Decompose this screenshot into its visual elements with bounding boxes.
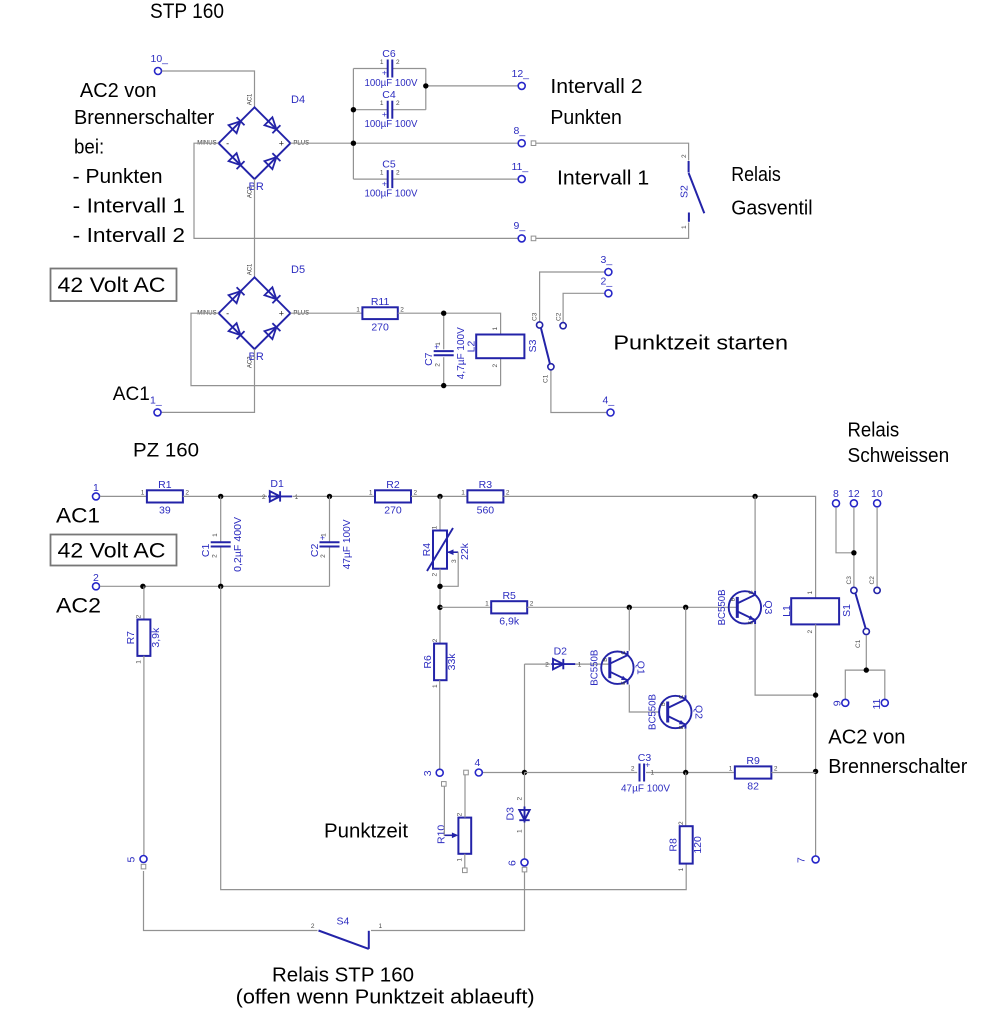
svg-text:- Intervall 2: - Intervall 2	[73, 225, 185, 247]
svg-text:+: +	[645, 760, 650, 770]
svg-text:R5: R5	[502, 590, 516, 602]
terminal 2	[93, 583, 100, 590]
svg-text:C2: C2	[309, 544, 321, 558]
svg-text:2: 2	[774, 766, 778, 773]
wire term4 to D3 node	[483, 772, 525, 774]
wire R5 left	[440, 606, 491, 608]
wire R10 wiper up	[443, 786, 445, 835]
svg-text:1: 1	[212, 533, 219, 537]
junction Q1 collector	[627, 605, 632, 610]
wire L2.2	[500, 358, 502, 385]
svg-text:Q2: Q2	[692, 705, 704, 719]
svg-text:100µF 100V: 100µF 100V	[365, 188, 418, 200]
svg-text:L1: L1	[781, 605, 793, 617]
svg-text:C1: C1	[543, 374, 550, 383]
junction PLUS bus	[351, 141, 356, 146]
wire branch to 11	[866, 670, 885, 699]
wire D5.PLUS to R11	[290, 312, 362, 314]
terminal 12_	[518, 82, 525, 89]
svg-text:1: 1	[456, 858, 463, 862]
resistor R11	[356, 296, 404, 334]
svg-text:1: 1	[485, 601, 489, 608]
svg-text:1: 1	[492, 327, 499, 331]
wire D4.AC2 to D5.AC1	[254, 179, 256, 277]
wire 5 to S4.2	[144, 871, 318, 931]
svg-text:Schweissen: Schweissen	[848, 445, 950, 467]
resistor R6	[422, 638, 458, 688]
label 11	[871, 698, 883, 709]
diode D3	[505, 797, 530, 834]
title PZ 160	[133, 441, 199, 462]
pad below 3	[442, 782, 447, 787]
pad R10 pin1	[463, 868, 468, 873]
svg-text:2: 2	[432, 638, 439, 642]
svg-text:C2: C2	[869, 576, 876, 585]
svg-text:BC550B: BC550B	[716, 589, 728, 625]
svg-text:1: 1	[729, 766, 733, 773]
label 6	[507, 860, 519, 866]
svg-text:C7: C7	[423, 352, 435, 366]
svg-text:8: 8	[833, 488, 839, 500]
svg-text:Q3: Q3	[762, 600, 774, 614]
terminal 12	[850, 500, 857, 507]
terminal 1_	[154, 409, 161, 416]
terminal 1	[93, 493, 100, 500]
label Schweissen	[848, 445, 950, 467]
wire C2 top stub	[329, 496, 331, 542]
svg-text:Intervall 1: Intervall 1	[557, 168, 649, 190]
svg-text:120: 120	[692, 836, 704, 854]
svg-text:8_: 8_	[514, 125, 526, 137]
svg-text:Brennerschalter: Brennerschalter	[828, 756, 967, 778]
wire right cap bus	[425, 69, 427, 110]
terminal 9_	[518, 235, 525, 242]
svg-text:Relais STP 160: Relais STP 160	[272, 965, 414, 987]
svg-text:2: 2	[434, 363, 441, 367]
svg-text:1: 1	[380, 59, 384, 66]
svg-text:BC550B: BC550B	[588, 650, 600, 686]
svg-text:Gasventil: Gasventil	[731, 198, 812, 220]
svg-text:Q1: Q1	[634, 661, 646, 675]
wire C6 left	[353, 68, 387, 70]
svg-text:E: E	[679, 725, 685, 729]
svg-text:C: C	[748, 590, 754, 594]
svg-text:E: E	[621, 681, 627, 685]
svg-text:42 Volt AC: 42 Volt AC	[58, 274, 166, 297]
label 12	[848, 488, 860, 500]
label AC2 bottom	[56, 595, 101, 618]
svg-text:1: 1	[141, 490, 145, 497]
junction 8/12	[851, 550, 856, 555]
junction R4 top	[437, 494, 442, 499]
switch S1 blade	[846, 576, 876, 648]
bridge rectifier D5	[197, 263, 309, 368]
wire AC2 net	[100, 585, 330, 587]
label 1	[93, 482, 99, 494]
trimmer R10	[436, 812, 471, 861]
svg-text:3: 3	[422, 770, 434, 776]
svg-text:1: 1	[295, 494, 299, 501]
relay coil L1	[781, 591, 853, 634]
wire L1.2 down to terminal 7	[815, 624, 817, 855]
terminal 4	[475, 769, 482, 776]
pad below 5	[141, 864, 146, 869]
terminal 3	[436, 769, 443, 776]
label 2_	[601, 276, 613, 288]
svg-text:C5: C5	[382, 159, 396, 171]
svg-text:3,9k: 3,9k	[150, 627, 162, 648]
svg-text:0,2µF 400V: 0,2µF 400V	[232, 517, 244, 572]
svg-text:R8: R8	[668, 838, 680, 852]
svg-text:2: 2	[678, 821, 685, 825]
svg-text:2: 2	[807, 630, 814, 634]
svg-text:6,9k: 6,9k	[499, 616, 520, 628]
label 2	[93, 572, 99, 584]
svg-text:12: 12	[848, 488, 860, 500]
svg-text:42 Volt AC: 42 Volt AC	[58, 540, 166, 563]
wire R7 top stub	[143, 586, 145, 619]
wire D5.MINUS to bottom bus	[191, 313, 501, 385]
svg-text:2: 2	[456, 812, 463, 816]
capacitor C4	[365, 89, 418, 130]
wire Q2 emitter	[685, 729, 687, 773]
junction R7 top	[140, 584, 145, 589]
label 12_	[512, 68, 530, 80]
svg-text:1: 1	[136, 660, 143, 664]
contact S3.C3	[537, 322, 543, 328]
diode D2	[545, 646, 582, 670]
contact S3.C2	[560, 323, 566, 329]
junction D3 node	[522, 770, 527, 775]
junction R5 left	[437, 605, 442, 610]
svg-text:2: 2	[681, 154, 688, 158]
wire to terminal 12_	[426, 85, 518, 87]
wire AC2 down to R8 return	[221, 586, 687, 889]
junction C1 top	[218, 494, 223, 499]
svg-text:2: 2	[396, 170, 400, 177]
svg-text:2: 2	[93, 572, 99, 584]
wire C5 to terminal 11_	[392, 178, 518, 180]
wire R4 pin1	[439, 496, 441, 530]
svg-text:R6: R6	[422, 655, 434, 669]
wire Q2 collector	[685, 607, 687, 695]
terminal 10_	[155, 68, 162, 75]
svg-text:STP 160: STP 160	[150, 0, 224, 23]
capacitor C5	[365, 159, 418, 200]
svg-text:C1: C1	[855, 639, 862, 648]
svg-text:1: 1	[461, 490, 465, 497]
resistor R8	[668, 821, 705, 871]
wire D2 to Q1 base	[576, 663, 610, 665]
svg-text:C1: C1	[200, 544, 212, 558]
42 Volt AC box top	[51, 269, 177, 302]
wire Q1 emitter to Q2 base	[629, 685, 659, 712]
svg-text:B: B	[603, 658, 609, 662]
svg-text:2: 2	[432, 573, 439, 577]
wire C7 bottom stub	[443, 357, 445, 385]
wire C6 right	[392, 68, 426, 70]
svg-text:Punktzeit: Punktzeit	[324, 821, 408, 843]
svg-text:+: +	[279, 309, 284, 319]
svg-text:Punktzeit starten: Punktzeit starten	[613, 333, 788, 355]
wire Q3 emitter	[755, 624, 816, 695]
transistor Q3	[716, 589, 774, 625]
pad at 9_	[531, 236, 536, 241]
svg-text:1: 1	[678, 867, 685, 871]
resistor R2	[369, 479, 418, 517]
wire R10 pin1 down	[464, 854, 466, 868]
label Intervall 2	[550, 76, 642, 98]
svg-text:Intervall 2: Intervall 2	[550, 76, 642, 98]
svg-text:4: 4	[475, 757, 481, 769]
label 10_	[151, 53, 169, 65]
svg-text:R11: R11	[371, 296, 390, 308]
capacitor C1	[200, 517, 244, 572]
contact S1.C3	[851, 587, 857, 593]
label - Intervall 1	[73, 196, 185, 218]
terminal 8_	[518, 140, 525, 147]
wire D2 left	[525, 663, 551, 665]
label 9	[831, 700, 843, 706]
junction 9/11	[864, 667, 869, 672]
svg-text:R2: R2	[386, 479, 400, 491]
svg-text:270: 270	[384, 505, 402, 517]
svg-text:1_: 1_	[150, 395, 162, 407]
terminal 3_	[605, 269, 612, 276]
contact S1.C2	[874, 587, 880, 593]
wire D1 to R2	[293, 495, 376, 497]
svg-text:D3: D3	[505, 807, 517, 821]
junction C2 top	[327, 494, 332, 499]
svg-text:+: +	[434, 341, 439, 351]
label 4_	[603, 395, 615, 407]
svg-text:11: 11	[871, 698, 883, 709]
wire 8_ to S2.2	[536, 143, 689, 160]
resistor R5	[485, 590, 534, 628]
trimmer R4	[421, 525, 471, 576]
svg-text:AC1: AC1	[248, 93, 254, 105]
wire R1 to D1	[183, 495, 267, 497]
wire C4 left	[353, 109, 387, 111]
resistor R9	[729, 755, 778, 793]
svg-text:3_: 3_	[601, 254, 613, 266]
resistor R3	[461, 479, 510, 517]
svg-text:BR: BR	[249, 181, 264, 193]
label 1_	[150, 395, 162, 407]
svg-text:1: 1	[380, 170, 384, 177]
svg-text:12_: 12_	[512, 68, 530, 80]
pad at 8_	[531, 141, 536, 146]
label 5	[126, 857, 138, 863]
junction C7 top	[441, 311, 446, 316]
wire C3 left	[525, 772, 638, 774]
svg-text:100µF 100V: 100µF 100V	[365, 118, 418, 130]
wire 10 to S1.C2	[876, 507, 878, 586]
svg-text:B: B	[730, 597, 736, 601]
label AC1 top	[113, 384, 150, 405]
label 8_	[514, 125, 526, 137]
svg-text:Brennerschalter: Brennerschalter	[74, 107, 215, 129]
svg-text:1: 1	[93, 482, 99, 494]
svg-text:4_: 4_	[603, 395, 615, 407]
junction C7 bottom	[441, 383, 446, 388]
label 9_	[514, 220, 526, 232]
svg-text:S2: S2	[679, 185, 691, 198]
wire S3.C1 to terminal 4_	[551, 370, 607, 413]
svg-text:2: 2	[414, 490, 418, 497]
svg-text:1: 1	[578, 662, 582, 669]
wire R3 to L1.1	[503, 496, 815, 598]
svg-text:1: 1	[380, 100, 384, 107]
svg-text:+: +	[320, 533, 325, 543]
svg-text:2: 2	[320, 554, 327, 558]
wire R10 pin2 up	[464, 775, 466, 818]
svg-text:C2: C2	[556, 312, 563, 321]
svg-text:C3: C3	[846, 576, 853, 585]
wire R9 to L1 net	[771, 772, 815, 774]
svg-text:(offen wenn Punktzeit ablaeuft: (offen wenn Punktzeit ablaeuft)	[236, 987, 535, 1009]
label 3	[422, 770, 434, 776]
svg-text:1: 1	[369, 490, 373, 497]
wire R8 top stub	[685, 773, 687, 827]
svg-text:9: 9	[831, 700, 843, 706]
terminal 7	[812, 856, 819, 863]
label offen wenn	[236, 987, 535, 1009]
svg-text:2: 2	[136, 614, 143, 618]
svg-text:1: 1	[356, 306, 360, 313]
wire 8 to S1 bus	[836, 507, 854, 553]
wire Q3 collector	[754, 496, 756, 590]
svg-text:47µF 100V: 47µF 100V	[341, 519, 353, 569]
svg-text:C6: C6	[382, 48, 396, 60]
svg-text:D4: D4	[291, 94, 305, 106]
svg-text:Relais: Relais	[731, 164, 781, 186]
label Gasventil	[731, 198, 812, 220]
svg-text:PZ 160: PZ 160	[133, 441, 199, 462]
wire D3 top stub	[524, 773, 526, 809]
svg-text:82: 82	[747, 781, 759, 793]
svg-text:33k: 33k	[446, 653, 458, 671]
wire C1 bottom stub	[220, 547, 222, 587]
wire S2.1 to 9_	[536, 223, 689, 239]
label Relais (Gasventil)	[731, 164, 781, 186]
wire 10_ to D4.AC1	[162, 71, 255, 107]
svg-text:AC1: AC1	[248, 263, 254, 275]
wire S3.C2 to terminal 2_	[563, 293, 604, 322]
wire D5.AC2 to terminal 1_	[161, 349, 254, 412]
svg-text:6: 6	[507, 860, 519, 866]
junction Q3 collector	[752, 494, 757, 499]
label Punktzeit	[324, 821, 408, 843]
terminal 10	[874, 500, 881, 507]
wire branch to 9	[845, 670, 866, 699]
capacitor C6	[365, 48, 418, 89]
wire D4.MINUS to terminal 9_	[194, 143, 518, 238]
wire C3 right	[646, 772, 735, 774]
svg-text:Punkten: Punkten	[550, 107, 622, 129]
label Relais STP 160	[272, 965, 414, 987]
svg-text:270: 270	[371, 321, 389, 333]
terminal 9	[842, 699, 849, 706]
svg-text:L2: L2	[466, 341, 478, 353]
svg-text:39: 39	[159, 505, 171, 517]
label 7	[796, 857, 808, 863]
terminal 11_	[518, 176, 525, 183]
wire R6 to terminal 3	[439, 680, 441, 769]
svg-text:S1: S1	[841, 604, 853, 617]
svg-text:2: 2	[400, 306, 404, 313]
resistor R1	[141, 479, 190, 517]
svg-text:B: B	[661, 702, 667, 706]
terminal 5	[140, 856, 147, 863]
42 Volt AC box bottom	[51, 535, 177, 566]
transistor Q1	[588, 650, 646, 686]
svg-text:E: E	[748, 621, 754, 625]
svg-text:2: 2	[311, 923, 315, 930]
svg-text:C: C	[621, 651, 627, 655]
svg-text:-: -	[226, 309, 229, 319]
wire R5 to Q3 base	[527, 606, 737, 608]
terminal 8	[833, 500, 840, 507]
wire terminal1 to R1	[100, 495, 147, 497]
wire D2 net vertical	[524, 664, 526, 772]
label bei:	[74, 137, 104, 159]
junction R4 bottom	[437, 584, 442, 589]
label Intervall 1	[557, 168, 649, 190]
svg-text:1: 1	[432, 525, 439, 529]
svg-text:BR: BR	[249, 351, 264, 363]
svg-text:2: 2	[492, 364, 499, 368]
label - Intervall 2	[73, 225, 185, 247]
svg-text:1: 1	[379, 923, 383, 930]
label 11_	[512, 161, 529, 173]
wire R2 to R3	[411, 495, 467, 497]
pad R10 pin2	[464, 770, 469, 775]
svg-text:AC2: AC2	[56, 595, 101, 618]
svg-text:2: 2	[516, 797, 523, 801]
wire D3 to terminal 6	[524, 823, 526, 859]
contact S3.C1	[548, 364, 554, 370]
svg-text:2: 2	[396, 59, 400, 66]
svg-text:D5: D5	[291, 264, 305, 276]
svg-text:2: 2	[262, 494, 266, 501]
svg-text:R1: R1	[158, 479, 172, 491]
svg-text:bei:: bei:	[74, 137, 104, 159]
capacitor C3	[621, 752, 670, 795]
wire R4 wiper net	[440, 552, 458, 586]
label Brennerschalter (top left)	[74, 107, 215, 129]
wire C7 top stub	[443, 313, 445, 349]
switch S3 blade	[532, 312, 563, 383]
terminal 2_	[605, 290, 612, 297]
svg-text:5: 5	[126, 857, 138, 863]
svg-text:S4: S4	[337, 916, 350, 928]
label - Punkten	[73, 166, 163, 188]
svg-text:AC1: AC1	[56, 505, 100, 528]
svg-text:-: -	[226, 139, 229, 149]
svg-text:11_: 11_	[512, 161, 529, 173]
svg-text:2_: 2_	[601, 276, 613, 288]
svg-text:47µF 100V: 47µF 100V	[621, 783, 670, 795]
wire C2 bottom stub	[329, 547, 331, 587]
label 10	[871, 488, 883, 500]
svg-text:- Punkten: - Punkten	[73, 166, 163, 188]
capacitor C7	[423, 327, 467, 379]
svg-text:D1: D1	[270, 478, 284, 490]
wire C1 top stub	[220, 496, 222, 542]
terminal 6	[521, 859, 528, 866]
wire S3.C3 to terminal 3_	[540, 272, 605, 322]
